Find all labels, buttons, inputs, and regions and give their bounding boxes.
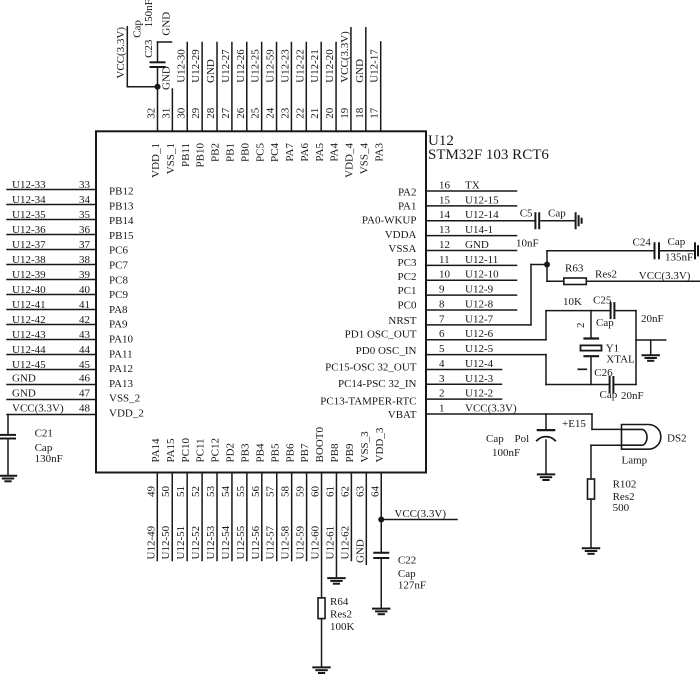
node junction NRST/C24/R63 [544,262,550,268]
svg-text:U12-56: U12-56 [250,525,262,559]
svg-text:VSS_4: VSS_4 [358,143,370,175]
pin 13 wire, net U14-1, name VDDA [385,224,517,241]
svg-text:U12-17: U12-17 [369,49,381,83]
svg-text:22: 22 [294,108,306,119]
svg-text:U12-43: U12-43 [12,329,46,341]
svg-text:U12-33: U12-33 [12,179,46,191]
svg-text:45: 45 [79,359,91,371]
ground (C21) [0,475,16,477]
pin 43 wire, net U12-43, name PA10 [7,329,134,346]
svg-text:Cap: Cap [596,317,614,329]
pin 50 wire (bottom), name PA15, net U12-50 [160,438,177,561]
svg-text:U12-20: U12-20 [324,49,336,83]
ground (R102) [583,547,599,549]
crystal Y1 XTAL [581,311,636,385]
pin 35 wire, net U12-35, name PB14 [7,209,134,227]
svg-text:PB13: PB13 [109,200,134,212]
pin 42 wire, net U12-42, name PA9 [7,314,128,331]
pin 40 wire, net U12-40, name PC9 [7,284,128,301]
svg-text:GND: GND [205,59,217,83]
svg-text:3: 3 [439,373,445,385]
svg-text:30: 30 [175,107,187,119]
svg-text:U12-6: U12-6 [465,328,494,340]
svg-text:U12-34: U12-34 [12,194,46,206]
svg-text:U12-5: U12-5 [465,343,494,355]
lamp DS2 [622,425,687,467]
svg-text:44: 44 [79,344,91,356]
svg-text:U12-40: U12-40 [12,284,46,296]
svg-text:14: 14 [439,209,451,221]
svg-text:PC12: PC12 [210,438,222,462]
svg-text:PC4: PC4 [269,143,281,162]
svg-text:U12-21: U12-21 [309,49,321,83]
svg-text:Cap: Cap [600,389,618,401]
svg-text:U12-8: U12-8 [465,298,494,310]
svg-text:R102: R102 [613,478,637,490]
capacitor Cap Pol 100nF (+E15) [486,414,555,474]
pin 34 wire, net U12-34, name PB13 [7,194,134,212]
pin 4 wire, net U12-4, name PC15-OSC 32_OUT [325,358,501,374]
svg-text:130nF: 130nF [35,453,63,465]
svg-text:PC10: PC10 [180,438,192,463]
svg-text:PB5: PB5 [269,443,281,462]
svg-text:C26: C26 [594,367,613,379]
svg-text:GND: GND [354,539,366,563]
svg-text:25: 25 [250,107,262,119]
svg-text:20nF: 20nF [641,313,664,325]
pin 28 wire (top), name PB2, net GND [205,43,222,162]
svg-text:33: 33 [79,179,91,191]
wire OSC_IN drop [545,355,547,385]
svg-text:12: 12 [439,239,450,251]
pin 37 wire, net U12-37, name PC6 [7,239,128,257]
svg-text:GND: GND [160,66,172,90]
svg-text:PB8: PB8 [329,443,341,462]
node junction pin32/C23 [155,84,161,90]
capacitor C5 10nF [516,208,575,250]
pin 20 wire (top), name PA4, net U12-20 [324,43,341,162]
svg-text:52: 52 [190,486,202,497]
pin 27 wire (top), name PB1, net U12-27 [220,43,237,162]
svg-text:38: 38 [79,254,91,266]
svg-text:U12-25: U12-25 [250,49,262,83]
svg-text:31: 31 [160,108,172,119]
svg-text:VDD_2: VDD_2 [109,408,144,420]
svg-text:29: 29 [190,107,202,119]
svg-text:48: 48 [79,403,91,415]
wire OSC_OUT riser [545,311,547,340]
ground (crystal) [643,354,659,356]
svg-text:C21: C21 [35,428,53,440]
svg-text:Cap: Cap [668,236,686,248]
svg-text:U12-10: U12-10 [465,269,499,281]
svg-text:62: 62 [339,486,351,497]
svg-text:PA0-WKUP: PA0-WKUP [362,215,417,227]
svg-text:U12-7: U12-7 [465,313,494,325]
svg-text:32: 32 [146,108,158,119]
svg-text:35: 35 [79,209,91,221]
svg-text:PA5: PA5 [314,143,326,162]
svg-text:51: 51 [175,486,187,497]
pin 58 wire (bottom), name PB6, net U12-58 [280,443,297,560]
svg-text:VDDA: VDDA [385,229,417,241]
svg-text:Y1: Y1 [606,342,619,354]
svg-text:PC9: PC9 [109,289,128,301]
svg-text:U12-61: U12-61 [324,526,336,560]
svg-text:VSS_2: VSS_2 [109,393,140,405]
svg-text:PC14-PSC 32_IN: PC14-PSC 32_IN [338,378,417,390]
pin 41 wire, net U12-41, name PA8 [7,299,128,316]
pin 45 wire, net U12-45, name PA12 [7,359,133,375]
svg-text:U12-51: U12-51 [175,526,187,560]
svg-text:11: 11 [439,254,450,266]
pin 47 wire, net GND, name VSS_2 [7,388,140,405]
svg-text:41: 41 [79,299,90,311]
pin 44 wire, net U12-44, name PA11 [7,344,133,360]
pin 59 wire (bottom), name PB7, net U12-59 [295,443,312,560]
svg-text:U12-49: U12-49 [145,525,157,559]
svg-text:PB14: PB14 [109,215,134,227]
svg-text:U12-9: U12-9 [465,284,494,296]
svg-text:VSS_1: VSS_1 [165,143,177,174]
svg-text:GND: GND [12,373,36,385]
svg-text:Cap: Cap [548,208,566,220]
svg-text:U12-35: U12-35 [12,209,46,221]
capacitor C24 135nF [547,236,694,264]
svg-text:U12-54: U12-54 [220,525,232,559]
svg-text:Res2: Res2 [595,269,617,281]
pin 9 wire, net U12-9, name PC1 [398,284,517,298]
svg-text:C22: C22 [398,555,416,567]
svg-text:1: 1 [439,403,445,415]
svg-text:2: 2 [575,323,587,329]
svg-text:PA1: PA1 [398,200,417,212]
svg-text:PA3: PA3 [373,143,385,162]
svg-text:6: 6 [439,328,445,340]
svg-text:R64: R64 [330,596,349,608]
svg-text:C5: C5 [520,208,533,220]
svg-text:PB2: PB2 [210,143,222,162]
svg-text:PC8: PC8 [109,274,128,286]
pin 55 wire (bottom), name PB3, net U12-55 [235,443,252,560]
svg-text:2: 2 [439,388,445,400]
svg-text:PC11: PC11 [195,438,207,462]
svg-text:PB10: PB10 [195,143,207,168]
pin 39 wire, net U12-39, name PC8 [7,269,128,286]
svg-text:PA6: PA6 [299,143,311,162]
pin 11 wire, net U12-11, name PC3 [398,254,517,269]
pin 5 wire, net U12-5, name PD0 OSC_IN [356,343,546,357]
pin 64 wire (bottom), name VDD_3 [369,427,386,551]
pin 51 wire (bottom), name PC10, net U12-51 [175,438,192,561]
svg-text:4: 4 [439,358,445,370]
svg-text:U12-57: U12-57 [265,525,277,559]
svg-text:63: 63 [354,486,366,498]
svg-text:PB12: PB12 [109,186,133,198]
ground (R64) [313,666,329,668]
svg-text:VCC(3.3V): VCC(3.3V) [115,27,127,79]
svg-text:GND: GND [354,59,366,83]
svg-text:DS2: DS2 [667,433,687,445]
svg-text:47: 47 [79,388,91,400]
pin 38 wire, net U12-38, name PC7 [7,254,128,272]
pin 8 wire, net U12-8, name PC0 [398,298,517,311]
svg-text:U12-41: U12-41 [12,299,46,311]
svg-text:37: 37 [79,239,91,251]
svg-text:U12-4: U12-4 [465,358,494,370]
svg-text:U12-60: U12-60 [310,525,322,559]
svg-text:C24: C24 [633,237,652,249]
svg-text:U12-30: U12-30 [175,49,187,83]
svg-text:135nF: 135nF [665,252,693,264]
svg-text:20: 20 [324,107,336,119]
svg-text:5: 5 [439,343,445,355]
svg-text:21: 21 [309,108,321,119]
svg-text:60: 60 [310,486,322,498]
pin 63 wire (bottom), name VSS_3, net GND [354,431,371,564]
svg-text:Cap: Cap [131,20,143,38]
svg-text:GND: GND [161,12,173,36]
svg-text:PB3: PB3 [239,443,251,462]
svg-text:U12-44: U12-44 [12,344,46,356]
svg-text:PA13: PA13 [109,378,134,390]
svg-text:Lamp: Lamp [622,455,648,467]
ground (C5, rotated) [575,213,577,228]
svg-text:43: 43 [79,329,91,341]
svg-text:U12-2: U12-2 [465,388,493,400]
pin 46 wire, net GND, name PA13 [7,373,134,390]
svg-text:PA8: PA8 [109,304,128,316]
svg-text:16: 16 [439,180,451,192]
svg-text:PD0 OSC_IN: PD0 OSC_IN [356,345,417,357]
svg-text:57: 57 [265,486,277,498]
svg-text:PB0: PB0 [239,143,251,162]
pin 54 wire (bottom), name PD2, net U12-54 [220,443,237,561]
svg-text:VDD_3: VDD_3 [374,427,386,462]
svg-text:PB4: PB4 [254,443,266,462]
pin 17 wire (top), name PA3, net U12-17 [369,42,386,162]
svg-text:40: 40 [79,284,91,296]
capacitor C26 20nF [594,367,643,402]
pin 30 wire (top), name PB11, net U12-30 [175,43,192,168]
svg-text:BOOT0: BOOT0 [314,427,326,463]
svg-text:VSS_3: VSS_3 [359,431,371,463]
pin 53 wire (bottom), name PC12, net U12-53 [205,438,222,560]
resistor R64 100K [318,596,354,667]
svg-text:58: 58 [280,486,292,498]
pin 1 wire, net VCC(3.3V), name VBAT [388,403,592,422]
svg-text:U12-15: U12-15 [465,194,499,206]
svg-text:U12-11: U12-11 [465,254,498,266]
pin 52 wire (bottom), name PC11, net U12-52 [190,438,207,560]
svg-text:U12-62: U12-62 [339,526,351,560]
svg-text:U12-39: U12-39 [12,269,46,281]
pin 22 wire (top), name PA6, net U12-22 [294,43,311,162]
pin 26 wire (top), name PB0, net U12-26 [235,43,252,162]
svg-text:10K: 10K [563,296,582,308]
svg-text:PD2: PD2 [225,443,237,463]
svg-text:VCC(3.3V): VCC(3.3V) [465,403,517,415]
svg-text:PB1: PB1 [225,143,237,162]
capacitor C22 127nF [374,520,426,609]
svg-text:55: 55 [235,486,247,498]
svg-text:U12-23: U12-23 [279,49,291,83]
svg-text:VCC(3.3V): VCC(3.3V) [639,270,691,282]
pin 49 wire (bottom), name PA14, net U12-49 [145,438,162,561]
svg-text:VCC(3.3V): VCC(3.3V) [12,403,64,415]
svg-text:U12-52: U12-52 [190,526,202,560]
svg-text:U12-55: U12-55 [235,525,247,559]
svg-text:36: 36 [79,224,91,236]
pin 23 wire (top), name PA7, net U12-23 [279,43,296,162]
pin 14 wire, net U12-14, name PA0-WKUP [362,209,534,226]
wire VCC jog to port [127,27,157,87]
svg-text:24: 24 [265,107,277,119]
svg-text:PC0: PC0 [398,300,417,312]
svg-text:59: 59 [295,486,307,498]
wire lamp leads [591,414,622,479]
svg-text:13: 13 [439,224,451,236]
capacitor C25 20nF [593,294,664,329]
svg-text:PA4: PA4 [329,143,341,162]
svg-text:PB15: PB15 [109,230,134,242]
pin 2 wire, net U12-2, name PC13-TAMPER-RTC [320,388,501,408]
svg-text:PC15-OSC 32_OUT: PC15-OSC 32_OUT [325,362,417,374]
pin 7 wire, net U12-7, name NRST [388,313,531,327]
pin 19 wire (top), name VDD_4, net VCC(3.3V) [339,28,356,178]
svg-text:15: 15 [439,194,451,206]
svg-text:127nF: 127nF [398,580,426,592]
svg-text:Pol: Pol [515,433,530,445]
svg-text:Cap: Cap [486,433,504,445]
svg-text:19: 19 [339,107,351,119]
pin 61 wire (bottom), name PB8, net U12-61 [324,443,341,576]
pin 16 wire, net TX, name PA2 [398,180,517,199]
svg-text:PA11: PA11 [109,348,133,360]
pin 21 wire (top), name PA5, net U12-21 [309,43,326,162]
svg-text:PC5: PC5 [254,143,266,162]
svg-text:Res2: Res2 [613,491,635,503]
crystal pin 1 label [578,368,586,370]
svg-text:8: 8 [439,298,445,310]
svg-text:PB11: PB11 [180,143,192,167]
svg-text:39: 39 [79,269,91,281]
svg-text:PC13-TAMPER-RTC: PC13-TAMPER-RTC [320,396,416,408]
svg-text:42: 42 [79,314,90,326]
svg-text:49: 49 [145,486,157,498]
svg-text:PA14: PA14 [150,438,162,463]
svg-text:18: 18 [354,107,366,119]
wire crystal box right [635,311,637,385]
svg-text:PC6: PC6 [109,245,128,257]
capacitor C23 150nF [131,0,171,87]
pin 3 wire, net U12-3, name PC14-PSC 32_IN [338,373,502,390]
svg-text:PA9: PA9 [109,319,128,331]
svg-text:PC2: PC2 [398,271,417,283]
pin 32 wire (top), name VDD_1 [146,87,163,178]
pin 33 wire, net U12-33, name PB12 [7,179,133,198]
resistor R63 10K [547,262,700,308]
svg-text:28: 28 [205,107,217,119]
pin 12 wire, net GND, name VSSA [388,239,516,255]
svg-text:PC1: PC1 [398,285,417,297]
svg-text:PA2: PA2 [398,187,417,199]
svg-text:100K: 100K [330,621,355,633]
svg-text:U12-50: U12-50 [160,525,172,559]
ground (C22) [373,608,389,610]
svg-text:U14-1: U14-1 [465,224,493,236]
svg-text:XTAL: XTAL [606,354,635,366]
pin 62 wire (bottom), name PB9, net U12-62 [339,443,356,560]
svg-text:PB7: PB7 [299,443,311,462]
svg-text:R63: R63 [565,262,584,274]
svg-text:VDD_1: VDD_1 [150,143,162,178]
svg-text:PA15: PA15 [165,438,177,463]
svg-text:C25: C25 [593,294,612,306]
pin 24 wire (top), name PC4, net U12-59 [265,43,282,162]
pin 36 wire, net U12-36, name PB15 [7,224,134,242]
svg-text:VBAT: VBAT [388,409,417,421]
svg-text:U12-38: U12-38 [12,254,46,266]
node junction pin64/C22 [378,517,384,523]
svg-text:150nF: 150nF [143,0,155,27]
svg-text:Cap: Cap [398,568,416,580]
svg-text:U12-58: U12-58 [280,525,292,559]
svg-text:27: 27 [220,107,232,119]
svg-text:U12-45: U12-45 [12,359,46,371]
svg-text:Res2: Res2 [330,609,352,621]
resistor R102 500 [588,478,637,547]
svg-text:U12-53: U12-53 [205,525,217,559]
pin 56 wire (bottom), name PB4, net U12-56 [250,443,267,560]
pin 60 wire (bottom), name BOOT0, net U12-60 [310,427,327,598]
wire NRST riser [531,251,547,325]
wire crystal ground stub [636,340,666,355]
svg-text:100nF: 100nF [492,447,520,459]
svg-text:VSSA: VSSA [388,243,416,255]
svg-text:20nF: 20nF [621,390,644,402]
svg-text:34: 34 [79,194,91,206]
svg-text:10nF: 10nF [516,238,539,250]
svg-text:U12-27: U12-27 [220,49,232,83]
svg-text:23: 23 [279,107,291,119]
svg-text:U12-3: U12-3 [465,373,494,385]
ground (pol cap) [538,473,554,475]
svg-text:9: 9 [439,284,445,296]
svg-text:TX: TX [465,180,480,192]
svg-text:PA12: PA12 [109,363,133,375]
svg-text:10: 10 [439,269,451,281]
svg-text:VCC(3.3V): VCC(3.3V) [339,31,351,83]
svg-text:PB9: PB9 [344,443,356,462]
pin 29 wire (top), name PB10, net U12-29 [190,43,207,168]
pin 10 wire, net U12-10, name PC2 [398,269,517,283]
svg-text:53: 53 [205,486,217,498]
svg-text:U12-37: U12-37 [12,239,46,251]
svg-text:54: 54 [220,486,232,498]
wire crystal box bottom [546,384,609,386]
svg-text:PC7: PC7 [109,260,128,272]
svg-text:26: 26 [235,107,247,119]
wire crystal box top [546,310,610,312]
svg-text:U12-42: U12-42 [12,314,46,326]
svg-text:61: 61 [324,486,336,497]
svg-text:PB6: PB6 [284,443,296,462]
svg-text:500: 500 [613,502,630,514]
svg-text:PA10: PA10 [109,334,134,346]
pin 6 wire, net U12-6, name PD1 OSC_OUT [345,328,546,340]
svg-text:NRST: NRST [388,315,416,327]
